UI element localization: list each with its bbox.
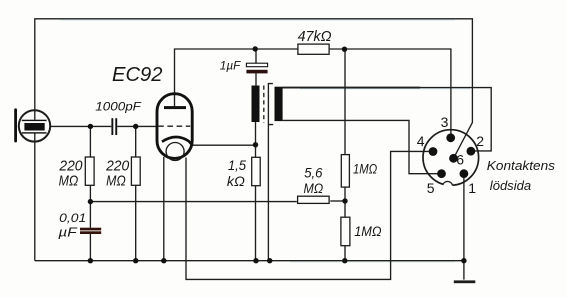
- svg-text:1,5: 1,5: [228, 157, 246, 173]
- svg-text:kΩ: kΩ: [227, 173, 245, 189]
- svg-text:2: 2: [476, 133, 484, 149]
- svg-text:220: 220: [105, 158, 129, 174]
- svg-text:MΩ: MΩ: [59, 173, 79, 189]
- svg-text:0,01: 0,01: [59, 211, 86, 225]
- svg-text:EC92: EC92: [112, 64, 163, 86]
- svg-text:3: 3: [441, 114, 449, 130]
- svg-text:1µF: 1µF: [220, 61, 242, 73]
- svg-text:220: 220: [58, 158, 82, 174]
- svg-text:MΩ: MΩ: [106, 173, 126, 189]
- svg-text:1MΩ: 1MΩ: [353, 161, 377, 177]
- svg-text:47kΩ: 47kΩ: [298, 29, 332, 45]
- svg-text:1: 1: [468, 180, 476, 196]
- svg-text:Kontaktens: Kontaktens: [487, 158, 556, 173]
- svg-text:MΩ: MΩ: [304, 181, 324, 196]
- svg-text:lödsida: lödsida: [490, 178, 531, 193]
- svg-text:6: 6: [456, 152, 464, 168]
- svg-text:4: 4: [417, 133, 425, 149]
- svg-text:µF: µF: [58, 224, 77, 239]
- svg-text:5,6: 5,6: [304, 165, 323, 180]
- svg-text:1000pF: 1000pF: [95, 99, 142, 113]
- svg-text:1MΩ: 1MΩ: [354, 223, 382, 239]
- svg-text:5: 5: [427, 180, 435, 196]
